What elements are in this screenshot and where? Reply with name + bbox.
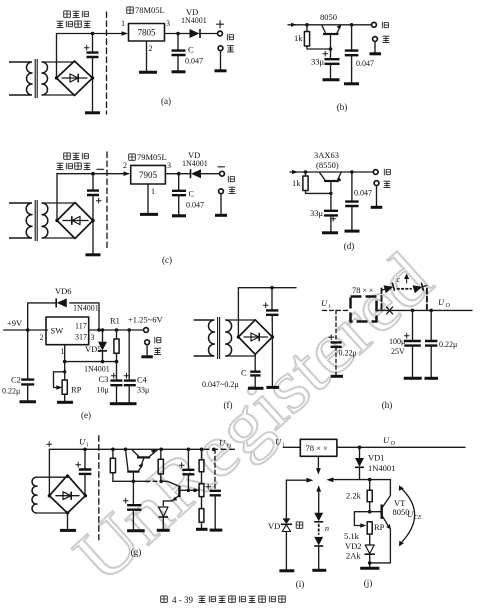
svg-text:0.047: 0.047 xyxy=(354,189,372,198)
node g-filter xyxy=(83,448,87,452)
node g-bus2 xyxy=(159,480,163,484)
transistor T1 g xyxy=(137,456,150,458)
svg-text:(h): (h) xyxy=(382,400,393,410)
svg-text:3: 3 xyxy=(167,161,171,170)
wire top rail c xyxy=(57,173,128,175)
svg-text:VD2: VD2 xyxy=(345,541,362,551)
svg-text:1N4001: 1N4001 xyxy=(181,16,207,25)
capacitor 33u b (electrolytic) xyxy=(325,59,340,64)
wire left drop a xyxy=(56,34,58,79)
terminal b+ xyxy=(372,22,377,27)
svg-text:1: 1 xyxy=(151,187,155,196)
svg-text:U: U xyxy=(79,437,86,447)
bridge diode f xyxy=(244,336,268,338)
ground out cap g xyxy=(210,529,223,532)
wire bridge minus drop f xyxy=(271,337,273,386)
node e-r1 xyxy=(115,328,119,332)
svg-text:(d): (d) xyxy=(344,241,355,251)
wire bus g solid xyxy=(113,480,146,482)
node g-bus1 xyxy=(132,480,136,484)
transformer T-a secondary xyxy=(42,62,48,95)
svg-text:(e): (e) xyxy=(81,410,91,420)
wire pin2 down xyxy=(146,41,148,71)
wire input ij xyxy=(283,446,300,448)
resistor 1k b xyxy=(306,25,308,32)
transformer T-f core xyxy=(218,317,220,359)
svg-text:n: n xyxy=(325,524,329,533)
diode VD2 (j) xyxy=(365,545,374,554)
label 电源输出 c xyxy=(57,163,64,169)
resistor Rb g xyxy=(199,460,204,472)
svg-text:C: C xyxy=(189,189,195,199)
wire bypass right riser h xyxy=(426,289,428,310)
caption 图 4-39 直流电源改进方案图 xyxy=(161,596,168,602)
svg-text:33μ: 33μ xyxy=(137,386,149,395)
ground f-right xyxy=(266,386,279,389)
svg-text:C4: C4 xyxy=(137,375,148,385)
svg-text:1N4001: 1N4001 xyxy=(73,304,99,313)
capacitor 100u 25V h xyxy=(412,310,414,340)
arrow into pin1 xyxy=(122,31,129,36)
label 出 d xyxy=(384,181,391,187)
node e-c4 xyxy=(127,328,131,332)
capacitor C 0.047 c xyxy=(178,174,180,191)
svg-text:1: 1 xyxy=(61,347,65,356)
ground C a xyxy=(172,70,186,73)
ground bridge g xyxy=(60,529,76,532)
regulator U-a 7805 xyxy=(129,24,165,42)
capacitor base g (electrolytic) xyxy=(132,481,134,504)
svg-text:O: O xyxy=(391,441,396,447)
svg-text:U: U xyxy=(383,435,390,445)
regulator 78xx h (dashed box) xyxy=(351,297,377,322)
diode chain 2 (i) xyxy=(314,537,323,546)
capacitor C f xyxy=(254,354,256,371)
capacitor C 0.047 a xyxy=(177,34,179,51)
label 输 e xyxy=(155,337,161,344)
svg-text:C2: C2 xyxy=(11,375,21,385)
wire top rail d xyxy=(306,171,374,173)
svg-text:1N4001: 1N4001 xyxy=(182,159,208,168)
ground 0.047 d xyxy=(345,230,360,233)
terminal d+ xyxy=(373,170,378,175)
wire junction rail ij xyxy=(332,479,390,481)
svg-text:33μ: 33μ xyxy=(311,57,325,67)
svg-text:1k: 1k xyxy=(294,33,303,43)
svg-text:U: U xyxy=(321,298,328,308)
ground column g xyxy=(196,528,208,531)
terminal a+ xyxy=(218,31,223,36)
node e3 xyxy=(101,360,105,364)
svg-text:2: 2 xyxy=(123,161,127,170)
svg-text:(g): (g) xyxy=(131,547,142,557)
diode VD 1N4001 a xyxy=(190,29,200,38)
wire input e xyxy=(4,329,48,331)
resistor column top wire g xyxy=(200,448,204,452)
svg-text:0.22μ: 0.22μ xyxy=(2,387,20,396)
transformer T-f secondary xyxy=(226,320,232,356)
label 出 xyxy=(227,46,234,52)
ground regulator c xyxy=(140,213,158,216)
svg-text:R1: R1 xyxy=(110,316,120,326)
ground terminal c xyxy=(215,214,227,217)
svg-text:5.1k: 5.1k xyxy=(344,531,360,541)
svg-text:7905: 7905 xyxy=(139,170,158,180)
regulator U-e SW117/317 xyxy=(46,317,89,345)
node b2 xyxy=(329,47,333,51)
wire top rail g solid xyxy=(49,448,195,450)
svg-text:2Ak: 2Ak xyxy=(346,551,361,561)
svg-text:O: O xyxy=(227,444,232,450)
wire pin1 down e xyxy=(64,345,66,362)
ground (i) left xyxy=(279,569,294,572)
resistor R3 g xyxy=(199,509,204,523)
ground terminal b xyxy=(370,52,382,55)
wire secondary leads f xyxy=(226,320,256,356)
ground 0.047 b xyxy=(344,82,359,85)
wire base (j) xyxy=(370,511,381,513)
node g-base1 xyxy=(187,489,191,493)
ground C f xyxy=(248,387,264,390)
transformer T-a core xyxy=(35,59,37,98)
regulator 78xx ij xyxy=(300,439,337,456)
dashed divider a xyxy=(106,12,108,114)
svg-text:78 × ×: 78 × × xyxy=(306,443,329,453)
wire box bottom drop ij xyxy=(317,456,319,468)
svg-text:+9V: +9V xyxy=(7,318,23,328)
svg-text:i: i xyxy=(87,443,89,449)
svg-text:(c): (c) xyxy=(162,255,172,265)
wire bus g dashed xyxy=(146,480,161,482)
svg-text:2: 2 xyxy=(40,333,44,342)
ground terminal e xyxy=(141,355,152,358)
node h1 xyxy=(411,309,415,313)
node b3 xyxy=(350,23,354,27)
node ij1 xyxy=(358,446,362,450)
arc UCE (j) xyxy=(400,488,415,545)
svg-text:117: 117 xyxy=(75,322,87,331)
ground 100u h xyxy=(404,377,422,380)
svg-text:79M05L: 79M05L xyxy=(137,152,167,162)
resistor Rc g xyxy=(199,484,204,497)
svg-text:78 × ×: 78 × × xyxy=(352,285,374,295)
wire junction rail e xyxy=(65,361,117,363)
node c2 xyxy=(177,172,181,176)
svg-text:3: 3 xyxy=(166,19,170,28)
potentiometer RP (j) wiper xyxy=(354,512,369,526)
capacitor 0.047 b xyxy=(351,25,353,50)
diode VD1 xyxy=(359,447,361,457)
svg-text:33μ: 33μ xyxy=(310,208,324,218)
svg-text:C3: C3 xyxy=(99,374,109,384)
wire output c xyxy=(165,173,190,175)
wire output a xyxy=(165,33,190,35)
wire left drop f xyxy=(237,288,239,337)
svg-text:0.22μ: 0.22μ xyxy=(439,340,457,349)
node b1 xyxy=(305,23,309,27)
svg-text:(i): (i) xyxy=(296,579,305,589)
svg-text:0.047: 0.047 xyxy=(186,201,204,210)
ground regulator a xyxy=(139,71,157,74)
wire terminal ground b xyxy=(374,41,376,52)
terminal e1 xyxy=(144,328,149,333)
wire terminal ground c xyxy=(220,194,222,214)
bridge diode g xyxy=(56,495,79,497)
svg-text:O: O xyxy=(446,303,451,309)
diode VD 1N4001 c (reversed) xyxy=(190,169,192,178)
transformer T-c primary xyxy=(9,203,32,238)
node d1 xyxy=(304,170,308,174)
wire output ij xyxy=(337,446,465,448)
wire bridge bottom drop g xyxy=(67,513,69,529)
diode VD5 xyxy=(102,330,104,342)
transformer T-f primary xyxy=(194,320,215,356)
svg-text:100μ: 100μ xyxy=(389,337,405,346)
wire input d xyxy=(290,171,306,173)
svg-text:C: C xyxy=(188,45,194,55)
svg-text:+1.25~6V: +1.25~6V xyxy=(128,315,164,325)
wire (i) right riser with up arrow xyxy=(318,489,320,513)
capacitor C4 33u xyxy=(128,330,130,380)
wire input h (dashed) xyxy=(323,309,350,311)
wire VD6 top branch xyxy=(28,303,99,330)
node e-in xyxy=(26,328,30,332)
dashed divider c xyxy=(106,152,108,250)
svg-text:(a): (a) xyxy=(161,96,171,106)
label 原整流 (text) xyxy=(64,11,71,17)
svg-text:2.2k: 2.2k xyxy=(346,491,362,501)
terminal e2 xyxy=(145,340,150,345)
svg-text:0.047: 0.047 xyxy=(356,59,374,68)
svg-text:U: U xyxy=(438,297,445,307)
ground zener g xyxy=(157,529,170,532)
node e2 xyxy=(63,360,67,364)
label 输 xyxy=(227,34,233,41)
svg-text:0.047~0.2μ: 0.047~0.2μ xyxy=(202,380,239,389)
transistor Q3 g xyxy=(178,486,180,497)
wire secondary leads a xyxy=(42,62,75,95)
arrow right-pointing (i) xyxy=(306,478,313,483)
wire left drop c xyxy=(56,174,58,221)
terminal a- xyxy=(218,46,223,51)
transistor T2 g xyxy=(127,471,139,473)
transistor VT 8050 (j) xyxy=(381,505,383,519)
transformer T-a primary xyxy=(9,62,32,95)
resistor R2 g xyxy=(159,448,163,452)
resistor Ra g xyxy=(111,448,115,452)
ground C3 xyxy=(110,402,124,405)
node g-out xyxy=(212,448,216,452)
x mark h xyxy=(387,307,393,314)
dotted link h xyxy=(398,288,412,290)
node j1 xyxy=(368,478,372,482)
label 输 d xyxy=(384,169,390,176)
capacitor 0.22u input h xyxy=(335,310,337,341)
node f1 xyxy=(270,286,274,290)
wire output rail h xyxy=(377,309,473,311)
node c1 xyxy=(91,172,95,176)
capacitor C3 10u xyxy=(116,362,118,380)
svg-text:4 - 39: 4 - 39 xyxy=(172,595,193,605)
svg-text:3AX63: 3AX63 xyxy=(314,150,339,160)
bridge rectifier a xyxy=(57,61,93,96)
regulator U-c 7905 xyxy=(131,165,166,184)
wire (i) left drop xyxy=(285,480,287,520)
wire bypass left riser h xyxy=(381,289,383,310)
svg-text:(b): (b) xyxy=(337,102,348,112)
svg-text:10μ: 10μ xyxy=(97,386,109,395)
svg-text:0.047: 0.047 xyxy=(185,57,203,66)
ground RP xyxy=(57,401,73,404)
wire top rail f xyxy=(238,287,296,289)
transformer T-c core xyxy=(35,200,37,241)
svg-text:1N4001: 1N4001 xyxy=(368,463,395,473)
diode VD6 xyxy=(57,298,67,307)
label 输 c xyxy=(228,176,234,183)
resistor 1k d xyxy=(305,172,307,176)
capacitor Ce g (electrolytic) xyxy=(187,448,191,452)
diode bypass 2 h xyxy=(413,282,428,294)
terminal b- xyxy=(373,37,378,42)
wire output rail e xyxy=(89,329,144,331)
svg-text:RP: RP xyxy=(71,385,82,395)
svg-text:VD: VD xyxy=(268,521,280,531)
zener VD g xyxy=(159,507,169,517)
node a1 xyxy=(91,32,95,36)
bridge diode a xyxy=(62,77,87,79)
ground c-filter xyxy=(86,253,101,256)
capacitor filter a (electrolytic) xyxy=(92,34,94,53)
svg-text:UnRegistered: UnRegistered xyxy=(59,237,447,598)
ground terminal d xyxy=(371,206,383,209)
resistor 2.2k (j) xyxy=(369,480,371,491)
label 或79M05L xyxy=(129,154,136,160)
resistor R1 xyxy=(116,330,118,339)
wire bus to Q3 g xyxy=(161,481,178,486)
svg-text:U: U xyxy=(275,437,282,447)
svg-text:C: C xyxy=(241,368,247,378)
wire pin1 down c xyxy=(147,184,149,213)
label 或 (i) xyxy=(296,522,303,528)
wire terminal ground d xyxy=(376,186,378,207)
ground input cap h xyxy=(331,375,343,378)
terminal d- xyxy=(374,181,379,186)
node g-base2 xyxy=(193,489,197,493)
circuit (i) wire top xyxy=(286,479,307,481)
wire left drop g xyxy=(48,449,50,495)
ground (i) right xyxy=(312,569,326,572)
node d2 xyxy=(350,170,354,174)
diode chain 1 (i) xyxy=(314,513,323,521)
svg-text:1k: 1k xyxy=(292,178,301,188)
ground 0.22u h xyxy=(425,377,439,380)
dashed divider g xyxy=(98,436,100,540)
capacitor 0.22u output h xyxy=(430,310,432,340)
zener VD (i) xyxy=(282,518,290,524)
transistor 3AX63 d xyxy=(324,180,339,182)
node j3 xyxy=(368,561,372,565)
minus sign c xyxy=(97,168,104,170)
label 出 b xyxy=(383,36,390,42)
node a2 xyxy=(176,32,180,36)
svg-text:317: 317 xyxy=(75,333,87,342)
watermark Unregistered xyxy=(59,237,447,598)
ground (j) xyxy=(360,567,379,570)
capacitor out g (electrolytic, dashed lead) xyxy=(214,449,216,490)
capacitor 0.047 d xyxy=(351,172,353,201)
capacitor 33u d (electrolytic) xyxy=(324,211,338,216)
svg-text:VD5: VD5 xyxy=(85,344,102,354)
ground base cap g xyxy=(127,529,145,532)
wire coil leads g xyxy=(37,477,68,513)
svg-text:0.22μ: 0.22μ xyxy=(339,349,357,358)
svg-text:U: U xyxy=(219,438,226,448)
wire terminal ground e xyxy=(146,345,148,356)
svg-text:3: 3 xyxy=(91,333,95,342)
svg-text:(j): (j) xyxy=(364,578,373,588)
transformer coil g xyxy=(32,477,37,513)
svg-text:VD6: VD6 xyxy=(55,286,72,296)
label + g xyxy=(47,442,52,447)
svg-text:8050: 8050 xyxy=(320,12,337,22)
bridge rectifier c xyxy=(57,203,93,239)
potentiometer RP xyxy=(64,362,66,380)
svg-text:U: U xyxy=(407,509,414,519)
svg-text:RP: RP xyxy=(374,522,385,532)
terminal c- xyxy=(220,171,225,176)
dotted link (i) xyxy=(318,525,320,535)
capacitor filter f (electrolytic) xyxy=(271,288,273,310)
arrow into pin2 xyxy=(124,171,131,176)
transformer T-c secondary xyxy=(42,203,48,238)
wire input b xyxy=(288,24,307,26)
svg-text:25V: 25V xyxy=(391,347,405,356)
bridge rectifier f xyxy=(238,320,272,355)
label 输 b xyxy=(382,22,388,29)
terminal c+ xyxy=(219,189,224,194)
svg-text:c: c xyxy=(397,275,401,284)
diode bypass 1 h xyxy=(381,283,395,294)
ground C2 xyxy=(20,400,37,403)
wire top rail g dashed xyxy=(196,448,238,450)
svg-text:7805: 7805 xyxy=(138,28,157,38)
arrow left-pointing (from VD1 side) xyxy=(326,477,333,482)
capacitor C2 0.22u xyxy=(27,330,29,379)
ground C c xyxy=(172,214,186,217)
svg-text:1N4001: 1N4001 xyxy=(84,365,110,374)
node e4 xyxy=(115,360,119,364)
wire secondary leads c xyxy=(42,203,75,238)
bridge diode c (reversed) xyxy=(63,220,88,222)
capacitor filter g (electrolytic) xyxy=(84,449,86,469)
label 或78M05L xyxy=(127,7,134,13)
capacitor filter c (electrolytic) xyxy=(92,174,94,190)
label 电源输出 (text) xyxy=(57,21,64,27)
node e-vd6 xyxy=(97,328,101,332)
svg-text:1: 1 xyxy=(121,19,125,28)
node h2 xyxy=(429,309,433,313)
svg-text:(f): (f) xyxy=(224,400,233,410)
ground C4 xyxy=(123,402,136,405)
wire top rail a xyxy=(57,33,127,35)
svg-text:78M05L: 78M05L xyxy=(135,5,165,15)
wire top rail b xyxy=(307,24,372,26)
node e-vd5 xyxy=(101,328,105,332)
ground terminal a xyxy=(215,69,227,72)
label 出 c xyxy=(229,187,236,193)
ground 33u b xyxy=(323,78,340,81)
label 出 e xyxy=(154,348,161,354)
